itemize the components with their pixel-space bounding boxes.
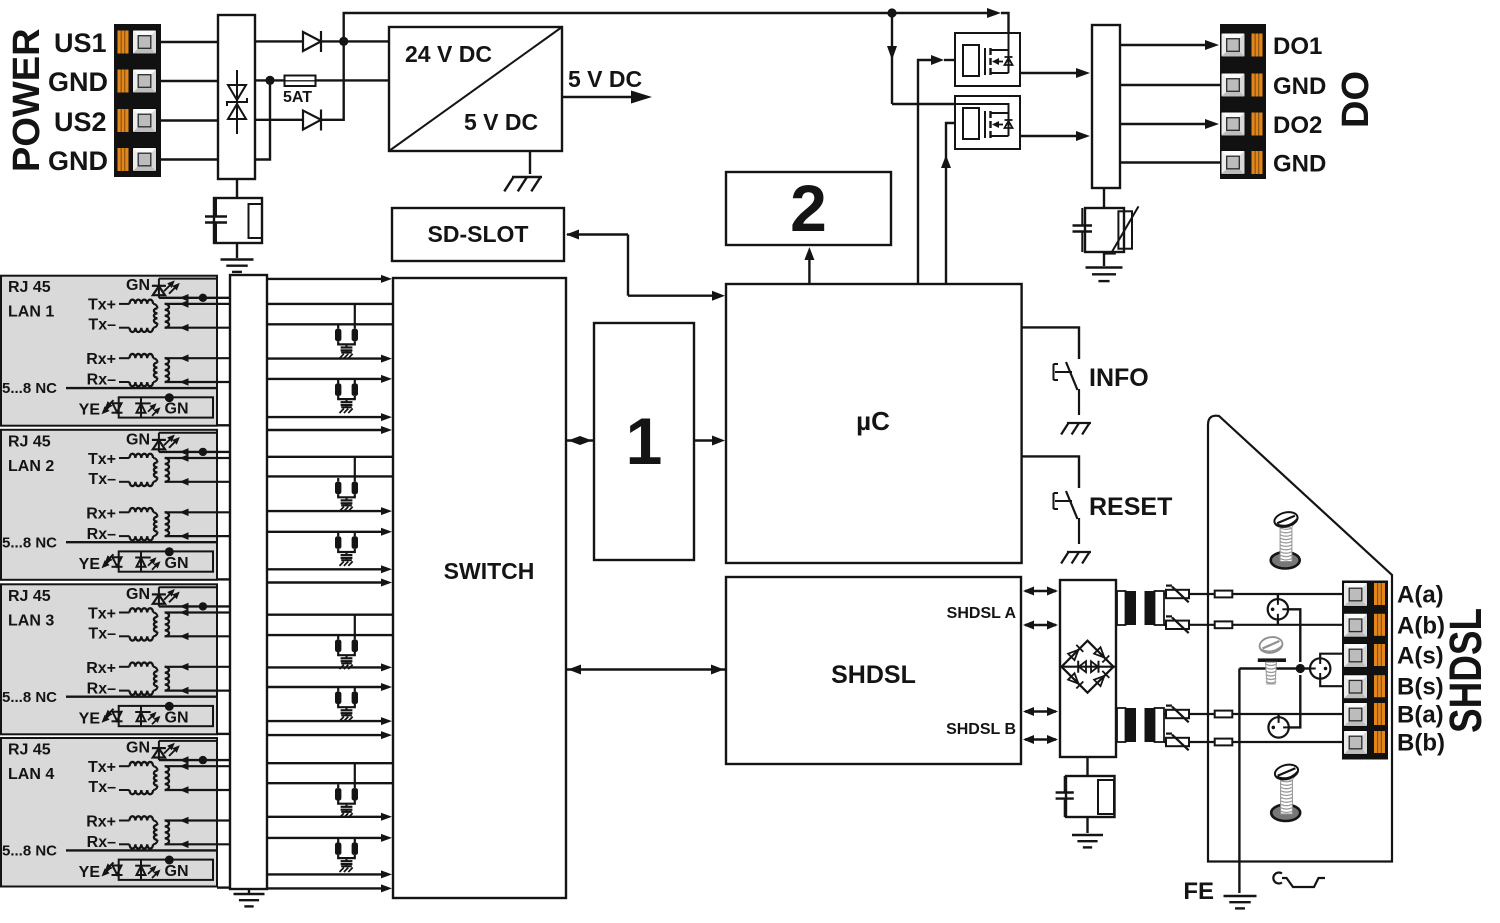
line transformer A bbox=[1117, 591, 1164, 625]
wire LAN3 bus to switch y=721 bbox=[267, 717, 392, 725]
wire GND2 to surge block bbox=[160, 158, 218, 160]
transformer Rx (LAN 2) bbox=[119, 508, 231, 540]
RJ45 LAN 1 port block bbox=[1, 276, 217, 426]
svg-text:Rx+: Rx+ bbox=[86, 351, 116, 368]
LED GN link (LAN 3) bbox=[152, 587, 217, 606]
wire RC to earth bbox=[1086, 817, 1088, 833]
terminal label US1 bbox=[54, 28, 107, 58]
svg-text:LAN 3: LAN 3 bbox=[8, 612, 54, 629]
label LAN 3 bbox=[8, 612, 54, 629]
wire LAN2 bus to switch y=582 bbox=[267, 579, 392, 587]
SD-SLOT box bbox=[392, 208, 564, 261]
chassis ground under converter bbox=[504, 151, 542, 191]
svg-text:LAN 4: LAN 4 bbox=[8, 766, 54, 783]
transformer Tx (LAN 1) bbox=[119, 300, 231, 332]
line fuse (A(a)) bbox=[1215, 591, 1233, 598]
svg-text:Rx+: Rx+ bbox=[86, 660, 116, 677]
terminal label US2 bbox=[54, 107, 107, 137]
svg-text:INFO: INFO bbox=[1089, 364, 1149, 392]
LED indicator box YE/GN (LAN 3) bbox=[102, 702, 214, 727]
svg-text:GN: GN bbox=[165, 863, 189, 880]
wire D2 up to node bbox=[321, 41, 344, 119]
wire LAN3 bus to switch y=615 bbox=[267, 614, 393, 616]
surge arrester (B(b)) bbox=[1166, 734, 1189, 751]
wire uC to relay K1 bbox=[918, 55, 955, 284]
wire TVS to input filter bbox=[236, 179, 238, 198]
svg-text:GN: GN bbox=[126, 431, 150, 448]
label Rx- (LAN 4) bbox=[87, 834, 116, 851]
label 5...8 NC (LAN 3) bbox=[2, 689, 57, 706]
svg-text:B(a): B(a) bbox=[1397, 702, 1444, 729]
terminal label GND bbox=[48, 67, 108, 97]
label Rx+ (LAN 1) bbox=[86, 351, 116, 368]
TVS diode symbol bbox=[227, 70, 247, 134]
wire LAN2 bus to switch y=532 bbox=[267, 528, 392, 536]
wire LAN1 bus to switch y=417 bbox=[267, 413, 392, 421]
svg-text:B(b): B(b) bbox=[1397, 730, 1445, 757]
wire LAN3 bus to switch y=635 bbox=[267, 634, 393, 636]
wire filter to earth bbox=[236, 243, 238, 258]
mounting screw (bottom) bbox=[1271, 762, 1300, 821]
wire LAN1 bus to switch y=279 bbox=[267, 275, 392, 283]
terminal label DO2 bbox=[1273, 112, 1322, 139]
svg-text:GN: GN bbox=[165, 555, 189, 572]
svg-text:GN: GN bbox=[126, 586, 150, 603]
DO terminal block X2 bbox=[1220, 24, 1266, 179]
wire LAN 4 LED box to bus bbox=[217, 886, 231, 888]
gas discharge tube M (center) bbox=[1300, 658, 1330, 678]
terminal label GND bbox=[1273, 151, 1326, 178]
svg-text:DO2: DO2 bbox=[1273, 112, 1322, 139]
svg-text:SHDSL: SHDSL bbox=[831, 661, 916, 689]
terminal label B(s) bbox=[1397, 674, 1444, 701]
svg-text:2: 2 bbox=[790, 171, 827, 245]
LAN isolation bus bar bbox=[230, 275, 267, 889]
arrow SHDSL-line-transformer A1 bidirectional bbox=[1023, 587, 1058, 596]
svg-text:5...8 NC: 5...8 NC bbox=[2, 534, 57, 551]
earth ground (power filter) bbox=[221, 260, 254, 272]
wire GND1-GND2 tie bbox=[255, 80, 270, 159]
svg-text:RJ 45: RJ 45 bbox=[8, 433, 51, 450]
svg-text:RJ 45: RJ 45 bbox=[8, 588, 51, 605]
wire D1 to node bbox=[321, 40, 389, 42]
arrow SHDSL-line-transformer B1 bidirectional bbox=[1023, 707, 1058, 716]
wire GDT M to A(s) terminal bbox=[1320, 654, 1342, 659]
wire GDT A to node bbox=[1288, 609, 1300, 662]
RC termination (LAN1 Tx) bbox=[335, 304, 358, 358]
wire GND2 (DO) bbox=[1120, 161, 1220, 163]
svg-text:RJ 45: RJ 45 bbox=[8, 742, 51, 759]
wire LAN1 bus to switch y=359 bbox=[267, 355, 392, 363]
gas discharge tube A bbox=[1268, 594, 1288, 625]
label 5...8 NC (LAN 4) bbox=[2, 843, 57, 860]
wire K1 output to DO filter bbox=[1020, 68, 1090, 78]
wire DO2 bbox=[1120, 119, 1219, 129]
arrow box1 to uC bbox=[694, 436, 725, 446]
transformer Tx (LAN 3) bbox=[119, 608, 231, 640]
wire 5...8 NC (LAN 3) bbox=[66, 696, 217, 698]
wire LAN 2 LED box to bus bbox=[217, 578, 231, 580]
input filter block (C+R) bbox=[205, 198, 262, 243]
svg-text:Rx+: Rx+ bbox=[86, 505, 116, 522]
label Tx- (LAN 4) bbox=[88, 779, 116, 796]
wire LED-GN to bus with node (LAN 4) bbox=[159, 756, 231, 764]
diode D1 bbox=[303, 31, 321, 52]
fuse F1 5AT bbox=[285, 76, 316, 87]
label INFO bbox=[1089, 364, 1149, 392]
wire fuse to converter bbox=[316, 79, 390, 81]
wire LED-GN to bus with node (LAN 1) bbox=[159, 294, 231, 302]
wire US1 to surge block bbox=[160, 41, 218, 43]
label LAN 2 bbox=[8, 458, 54, 475]
transformer Rx (LAN 3) bbox=[119, 663, 231, 695]
arrow SWITCH-box1 bidirectional bbox=[566, 436, 594, 445]
wire FE connection bbox=[1239, 669, 1300, 894]
wire rail down to relay K2 bbox=[887, 13, 955, 104]
wire SHDSL line A(a) bbox=[1164, 593, 1342, 595]
svg-text:Tx–: Tx– bbox=[88, 779, 116, 796]
RC termination (LAN1 Rx) bbox=[335, 379, 358, 413]
wire DO1 bbox=[1120, 40, 1219, 50]
svg-text:A(s): A(s) bbox=[1397, 643, 1444, 670]
label 5...8 NC (LAN 1) bbox=[2, 380, 57, 397]
terminal label GND bbox=[1273, 73, 1326, 100]
svg-text:Rx–: Rx– bbox=[87, 834, 116, 851]
svg-text:1: 1 bbox=[626, 404, 663, 478]
line RC filter block (C+R) bbox=[1056, 776, 1115, 817]
wire US2 to surge block bbox=[160, 119, 218, 121]
svg-text:SWITCH: SWITCH bbox=[444, 558, 535, 584]
svg-text:Rx–: Rx– bbox=[87, 372, 116, 389]
LED indicator box YE/GN (LAN 1) bbox=[102, 393, 214, 418]
wire SHDSL line B(a) bbox=[1164, 713, 1342, 715]
svg-text:GN: GN bbox=[126, 740, 150, 757]
LED GN link (LAN 2) bbox=[152, 433, 217, 452]
label Tx- (LAN 2) bbox=[88, 471, 116, 488]
surge bridge symbol bbox=[1060, 641, 1116, 693]
wire uC to relay K2 bbox=[941, 123, 955, 284]
svg-text:5...8 NC: 5...8 NC bbox=[2, 843, 57, 860]
RJ45 LAN 3 port block bbox=[1, 584, 217, 734]
label Rx- (LAN 3) bbox=[87, 680, 116, 697]
svg-text:Tx–: Tx– bbox=[88, 471, 116, 488]
label Rx- (LAN 2) bbox=[87, 526, 116, 543]
5V DC output arrow bbox=[562, 91, 652, 104]
wire bridge block to RC bbox=[1086, 757, 1088, 776]
svg-text:Tx+: Tx+ bbox=[88, 759, 116, 776]
earth ground FE bbox=[1224, 896, 1257, 908]
label Tx+ (LAN 1) bbox=[88, 297, 116, 314]
label 5 V DC bbox=[568, 66, 642, 92]
transformer Tx (LAN 2) bbox=[119, 454, 231, 486]
POWER label bbox=[6, 28, 48, 172]
terminal label GND bbox=[48, 146, 108, 176]
wire GND (DO) bbox=[1120, 84, 1220, 86]
label LAN 1 bbox=[8, 304, 54, 321]
terminal label B(a) bbox=[1397, 702, 1444, 729]
label Rx+ (LAN 2) bbox=[86, 505, 116, 522]
label Tx- (LAN 3) bbox=[88, 625, 116, 642]
surge arrester (B(a)) bbox=[1166, 706, 1189, 723]
svg-text:GND: GND bbox=[48, 67, 108, 97]
wire 5...8 NC (LAN 4) bbox=[66, 849, 217, 851]
svg-text:24 V DC: 24 V DC bbox=[405, 41, 492, 67]
wire LAN4 bus to switch y=817 bbox=[267, 813, 392, 821]
wire GND to surge block bbox=[160, 80, 218, 82]
line interface / protection block bbox=[1060, 580, 1116, 757]
label FE bbox=[1183, 878, 1214, 905]
node: diode-OR junction bbox=[339, 37, 348, 46]
line fuse (A(b)) bbox=[1215, 621, 1233, 628]
ethernet SWITCH block bbox=[393, 278, 566, 898]
wire LAN 1 LED box to bus bbox=[217, 424, 231, 426]
label YE (LAN 4) bbox=[79, 864, 101, 881]
arrow SHDSL-line-transformer B2 bidirectional bbox=[1023, 735, 1058, 744]
svg-text:5 V DC: 5 V DC bbox=[464, 109, 538, 135]
transformer Tx (LAN 4) bbox=[119, 762, 231, 794]
LED GN link (LAN 4) bbox=[152, 741, 217, 760]
wire GND to fuse bbox=[255, 79, 285, 81]
FE earth screw bbox=[1258, 635, 1286, 684]
svg-text:A(a): A(a) bbox=[1397, 582, 1444, 609]
RESET push-button bbox=[1054, 491, 1092, 564]
wire LAN3 bus to switch y=667 bbox=[267, 663, 392, 671]
line transformer B bbox=[1117, 708, 1164, 742]
DO output filter block bbox=[1092, 25, 1120, 188]
label Tx+ (LAN 3) bbox=[88, 605, 116, 622]
RC termination (LAN3 Rx) bbox=[335, 687, 358, 721]
svg-text:GND: GND bbox=[1273, 73, 1326, 100]
wire SHDSL line B(b) bbox=[1164, 741, 1342, 743]
LED GN link (LAN 1) bbox=[152, 279, 217, 298]
label Rx+ (LAN 4) bbox=[86, 814, 116, 831]
solid-state relay K2 bbox=[955, 96, 1020, 149]
LED indicator box YE/GN (LAN 2) bbox=[102, 547, 214, 572]
svg-text:SHDSL B: SHDSL B bbox=[946, 721, 1016, 738]
label Rx+ (LAN 3) bbox=[86, 660, 116, 677]
svg-text:FE: FE bbox=[1183, 878, 1214, 905]
label Tx+ (LAN 2) bbox=[88, 451, 116, 468]
arrow uC to box 2 bbox=[804, 247, 814, 284]
svg-text:µC: µC bbox=[856, 406, 890, 436]
label RESET bbox=[1089, 493, 1172, 521]
label GN (LAN 4 link LED) bbox=[126, 740, 150, 757]
wire varistor filter to earth bbox=[1103, 252, 1105, 266]
terminal label B(b) bbox=[1397, 730, 1445, 757]
svg-text:5...8 NC: 5...8 NC bbox=[2, 380, 57, 397]
svg-text:GN: GN bbox=[165, 401, 189, 418]
svg-text:GN: GN bbox=[165, 709, 189, 726]
label 5...8 NC (LAN 2) bbox=[2, 534, 57, 551]
RC termination (LAN2 Tx) bbox=[335, 457, 358, 511]
wire LAN1 bus to switch y=379 bbox=[267, 375, 392, 383]
wire LAN1 bus to switch y=324 bbox=[267, 323, 393, 325]
box 1 (interface) bbox=[594, 323, 694, 560]
POWER terminal block X1 bbox=[114, 24, 161, 177]
line fuse (B(b)) bbox=[1215, 739, 1233, 746]
svg-text:5 V DC: 5 V DC bbox=[568, 66, 642, 92]
diode D2 bbox=[303, 110, 321, 131]
svg-text:DO: DO bbox=[1335, 71, 1377, 128]
svg-text:SHDSL A: SHDSL A bbox=[947, 605, 1017, 622]
svg-text:DO1: DO1 bbox=[1273, 33, 1322, 60]
terminal label A(a) bbox=[1397, 582, 1444, 609]
wire DO filter to varistor filter bbox=[1103, 188, 1105, 208]
wire GDT B to node bbox=[1289, 675, 1301, 727]
wire LAN 3 LED box to bus bbox=[217, 733, 231, 735]
SHDSL terminal block X3 bbox=[1342, 581, 1388, 760]
RJ45 LAN 2 port block bbox=[1, 430, 217, 580]
wire LED-GN to bus with node (LAN 2) bbox=[159, 448, 231, 456]
INFO push-button bbox=[1054, 362, 1092, 435]
wire LAN4 bus to switch y=838 bbox=[267, 834, 392, 842]
SHDSL modem block bbox=[726, 577, 1021, 764]
wire LAN4 bus to switch y=888 bbox=[267, 884, 392, 892]
wire LAN1 bus to switch y=430 bbox=[267, 426, 392, 434]
gas discharge tube B bbox=[1268, 714, 1288, 738]
RJ45 LAN 4 port block bbox=[1, 738, 217, 887]
SHDSL label bbox=[1440, 608, 1491, 733]
label RJ 45 (LAN 2) bbox=[8, 433, 51, 450]
wire LAN2 bus to switch y=476 bbox=[267, 475, 393, 477]
label RJ 45 (LAN 3) bbox=[8, 588, 51, 605]
microcontroller uC bbox=[726, 284, 1022, 563]
solid-state relay K1 bbox=[955, 33, 1020, 86]
transformer Rx (LAN 4) bbox=[119, 816, 231, 848]
label YE (LAN 1) bbox=[79, 402, 101, 419]
earth ground (line RC) bbox=[1072, 835, 1103, 847]
svg-text:5AT: 5AT bbox=[283, 89, 312, 106]
svg-text:Tx+: Tx+ bbox=[88, 605, 116, 622]
DO varistor filter block (C+RV) bbox=[1073, 206, 1139, 253]
surge suppressor block (TVS) bbox=[218, 15, 255, 179]
svg-text:A(b): A(b) bbox=[1397, 612, 1445, 639]
svg-text:B(s): B(s) bbox=[1397, 674, 1444, 701]
wire uC to info button bbox=[1022, 327, 1079, 359]
RC termination (LAN4 Rx) bbox=[335, 838, 358, 872]
svg-text:GN: GN bbox=[126, 277, 150, 294]
svg-text:POWER: POWER bbox=[6, 28, 48, 172]
RC termination (LAN3 Tx) bbox=[335, 615, 358, 669]
svg-text:SHDSL: SHDSL bbox=[1440, 608, 1491, 733]
svg-text:YE: YE bbox=[79, 402, 101, 419]
svg-text:Tx+: Tx+ bbox=[88, 297, 116, 314]
svg-text:RJ 45: RJ 45 bbox=[8, 279, 51, 296]
wire LAN4 bus to switch y=783 bbox=[267, 782, 393, 784]
wire uC to reset button bbox=[1022, 456, 1079, 488]
wire uC to SD-SLOT bbox=[566, 230, 725, 301]
DIN rail symbol bbox=[1273, 873, 1325, 888]
arrow SWITCH-SHDSL bidirectional bbox=[566, 665, 726, 675]
wire LAN4 bus to switch y=874 bbox=[267, 870, 392, 878]
node GND junction bbox=[265, 76, 274, 85]
label GN (LAN 1 link LED) bbox=[126, 277, 150, 294]
label GN (LAN 3 link LED) bbox=[126, 586, 150, 603]
svg-text:Rx–: Rx– bbox=[87, 680, 116, 697]
DO label bbox=[1335, 71, 1377, 128]
RC termination (LAN4 Tx) bbox=[335, 763, 358, 817]
svg-text:LAN 2: LAN 2 bbox=[8, 458, 54, 475]
svg-text:GND: GND bbox=[48, 146, 108, 176]
svg-text:US1: US1 bbox=[54, 28, 107, 58]
label YE (LAN 3) bbox=[79, 710, 101, 727]
line fuse (B(a)) bbox=[1215, 711, 1233, 718]
wire 5...8 NC (LAN 2) bbox=[66, 541, 217, 543]
surge arrester (A(b)) bbox=[1166, 616, 1189, 633]
label LAN 4 bbox=[8, 766, 54, 783]
svg-text:LAN 1: LAN 1 bbox=[8, 304, 54, 321]
svg-text:Rx+: Rx+ bbox=[86, 814, 116, 831]
wire LAN3 bus to switch y=687 bbox=[267, 683, 392, 691]
svg-text:YE: YE bbox=[79, 710, 101, 727]
wire rail to relay K1 bbox=[892, 8, 1009, 33]
wire LAN2 bus to switch y=457 bbox=[267, 456, 393, 458]
label RJ 45 (LAN 1) bbox=[8, 279, 51, 296]
svg-text:Rx–: Rx– bbox=[87, 526, 116, 543]
wire SHDSL line A(b) bbox=[1164, 624, 1342, 626]
wire LAN3 bus to switch y=735 bbox=[267, 731, 392, 739]
label RJ 45 (LAN 4) bbox=[8, 742, 51, 759]
wire GDT M to B(s) terminal bbox=[1320, 679, 1342, 687]
RC termination (LAN2 Rx) bbox=[335, 532, 358, 566]
label Rx- (LAN 1) bbox=[87, 372, 116, 389]
svg-text:Tx–: Tx– bbox=[88, 625, 116, 642]
svg-text:US2: US2 bbox=[54, 107, 107, 137]
svg-text:Tx+: Tx+ bbox=[88, 451, 116, 468]
arrow SHDSL-line-transformer A2 bidirectional bbox=[1023, 621, 1058, 630]
terminal label A(b) bbox=[1397, 612, 1445, 639]
wire LAN2 bus to switch y=569 bbox=[267, 565, 392, 573]
box 2 (display) bbox=[726, 171, 891, 245]
surge arrester (A(a)) bbox=[1166, 586, 1189, 603]
wire LED-GN to bus with node (LAN 3) bbox=[159, 602, 231, 610]
earth ground (DO filter) bbox=[1086, 268, 1123, 282]
label Tx+ (LAN 4) bbox=[88, 759, 116, 776]
node GDT common bbox=[1296, 664, 1305, 673]
svg-text:Tx–: Tx– bbox=[88, 317, 116, 334]
label GN (LAN 2 link LED) bbox=[126, 431, 150, 448]
svg-text:RESET: RESET bbox=[1089, 493, 1172, 521]
terminal label A(s) bbox=[1397, 643, 1444, 670]
svg-text:YE: YE bbox=[79, 556, 101, 573]
wire K2 output to DO filter bbox=[1020, 131, 1090, 141]
svg-text:5...8 NC: 5...8 NC bbox=[2, 689, 57, 706]
transformer Rx (LAN 1) bbox=[119, 354, 231, 386]
wire US2 to diode D2 bbox=[255, 119, 303, 121]
power rail node bbox=[887, 8, 896, 17]
wire 5...8 NC (LAN 1) bbox=[66, 387, 217, 389]
wire LAN1 bus to switch y=304 bbox=[267, 303, 393, 305]
svg-text:YE: YE bbox=[79, 864, 101, 881]
terminal label DO1 bbox=[1273, 33, 1322, 60]
svg-text:GND: GND bbox=[1273, 151, 1326, 178]
label Tx- (LAN 1) bbox=[88, 317, 116, 334]
svg-text:SD-SLOT: SD-SLOT bbox=[428, 221, 529, 247]
wire LAN4 bus to switch y=763 bbox=[267, 762, 393, 764]
wire 24V rail to top bbox=[344, 13, 892, 41]
earth ground (bus bar) bbox=[234, 889, 265, 906]
wire US1 rail to diode D1 bbox=[255, 40, 303, 42]
protection module outline bbox=[1208, 416, 1392, 862]
mounting screw (top) bbox=[1271, 510, 1300, 569]
LED indicator box YE/GN (LAN 4) bbox=[102, 856, 214, 881]
label 5AT bbox=[283, 89, 312, 106]
wire LAN2 bus to switch y=511 bbox=[267, 507, 392, 515]
DC/DC converter 24V->5V bbox=[389, 27, 562, 151]
label YE (LAN 2) bbox=[79, 556, 101, 573]
